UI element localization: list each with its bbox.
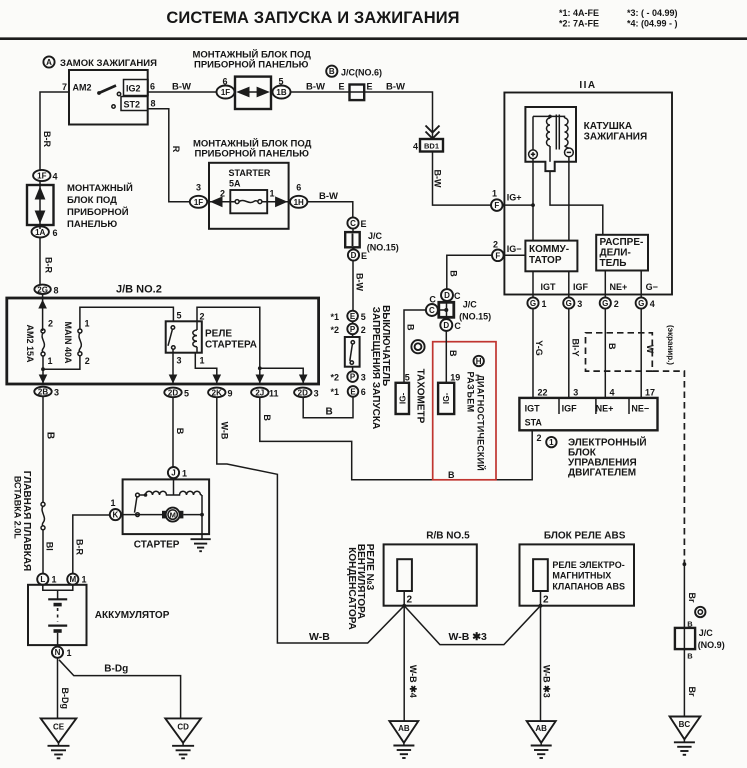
svg-text:ТЕЛЬ: ТЕЛЬ bbox=[600, 258, 627, 269]
svg-text:2: 2 bbox=[48, 319, 53, 329]
svg-text:3: 3 bbox=[573, 388, 578, 398]
fan relay element bbox=[397, 559, 412, 591]
connector J(1) circle bbox=[168, 467, 179, 478]
svg-text:CD: CD bbox=[177, 723, 189, 732]
exit arrow down bbox=[39, 375, 48, 384]
svg-text:F: F bbox=[494, 201, 499, 210]
connector F(1) circle bbox=[491, 199, 503, 211]
svg-text:W-B: W-B bbox=[309, 631, 330, 643]
wire IG2 to 1F oval bbox=[148, 91, 217, 93]
wire N to CE ground bbox=[57, 658, 59, 719]
svg-text:6: 6 bbox=[361, 387, 366, 397]
wire relay pin2 to 2J(11) bbox=[197, 307, 260, 384]
wire through fuse box bbox=[209, 201, 235, 203]
starter solenoid coil bbox=[139, 494, 145, 496]
svg-text:1: 1 bbox=[110, 498, 115, 508]
junction block J/B NO.2 box bbox=[7, 298, 319, 384]
svg-text:СТАРТЕРА: СТАРТЕРА bbox=[205, 340, 257, 351]
svg-text:B: B bbox=[448, 350, 458, 357]
relay contact bbox=[171, 326, 175, 330]
ground (starter) bbox=[191, 538, 211, 540]
svg-text:D: D bbox=[443, 321, 449, 330]
connector N(1) circle bbox=[52, 647, 63, 658]
wire K to motor bbox=[121, 514, 164, 516]
svg-text:B: B bbox=[262, 414, 272, 421]
wire coil tab to distributor bbox=[550, 171, 603, 235]
svg-text:6: 6 bbox=[150, 82, 155, 92]
svg-text:ТАХОМЕТР: ТАХОМЕТР bbox=[415, 369, 426, 424]
ABS relay element bbox=[533, 559, 548, 591]
ground CE bbox=[41, 718, 77, 742]
svg-text:H: H bbox=[476, 357, 482, 366]
svg-text:G−: G− bbox=[646, 282, 658, 292]
junction connector J/C NO.9 box bbox=[675, 628, 695, 649]
connector C circle left bbox=[426, 304, 438, 316]
designator double circle (tach) bbox=[411, 340, 424, 353]
svg-text:1: 1 bbox=[542, 299, 547, 309]
connector 1B oval bbox=[273, 86, 291, 99]
svg-text:IG-: IG- bbox=[442, 393, 451, 404]
svg-text:G: G bbox=[602, 299, 608, 308]
wire to battery L bbox=[42, 530, 44, 574]
svg-text:6: 6 bbox=[296, 183, 301, 193]
svg-text:РЕЛЕ: РЕЛЕ bbox=[205, 329, 232, 340]
svg-text:D: D bbox=[444, 291, 450, 300]
connector G(1) bbox=[527, 297, 538, 308]
svg-text:B: B bbox=[45, 432, 56, 439]
svg-text:B-W: B-W bbox=[319, 191, 338, 202]
wire 1A to 2G bbox=[39, 238, 41, 285]
ignition switch contact bbox=[97, 91, 101, 95]
wire MAIN top to relay pin 5 bbox=[80, 307, 173, 329]
svg-text:МОНТАЖНЫЙ: МОНТАЖНЫЙ bbox=[67, 182, 133, 194]
wire W-B *3 R/B to ABS bbox=[404, 606, 540, 645]
node ABS pin2 junction bbox=[539, 604, 543, 608]
pass-through arrow left bbox=[236, 87, 249, 98]
svg-text:STARTER: STARTER bbox=[229, 168, 271, 178]
neutral start switch box bbox=[345, 337, 360, 367]
wire 1B to J/C NO.6 bbox=[291, 91, 350, 93]
connector 1F(3) oval bbox=[190, 196, 207, 208]
svg-text:7: 7 bbox=[62, 82, 67, 92]
igniter КОММУТАТОР box bbox=[525, 241, 577, 272]
fuse AM2 15A bbox=[41, 329, 45, 333]
wire coil plus column down to igniter bbox=[532, 158, 534, 240]
svg-text:CE: CE bbox=[53, 723, 65, 732]
wire AM2 to 2B with junction bbox=[42, 356, 44, 384]
svg-text:L: L bbox=[40, 575, 45, 584]
svg-text:ПАНЕЛЬЮ: ПАНЕЛЬЮ bbox=[67, 219, 117, 230]
svg-text:C: C bbox=[429, 295, 436, 305]
svg-text:БЛОК ПОД: БЛОК ПОД bbox=[67, 195, 117, 206]
svg-text:2: 2 bbox=[220, 189, 225, 199]
svg-text:NE+: NE+ bbox=[610, 282, 628, 292]
ignition switch SW1 box bbox=[69, 70, 148, 125]
svg-text:БЛОК РЕЛЕ ABS: БЛОК РЕЛЕ ABS bbox=[544, 531, 626, 542]
starter box bbox=[123, 479, 210, 534]
wire F2 left to J/C NO.15 bbox=[447, 255, 492, 289]
switch stub wires bbox=[352, 321, 354, 323]
fuse block STARTER 5A outer box bbox=[209, 163, 289, 229]
svg-text:ЗАЖИГАНИЯ: ЗАЖИГАНИЯ bbox=[584, 132, 648, 143]
wire R/B pin2 to AB ground bbox=[403, 606, 405, 721]
svg-text:2: 2 bbox=[543, 595, 549, 606]
svg-text:8: 8 bbox=[54, 285, 59, 295]
wire 2G into box bbox=[42, 294, 44, 331]
connector 2B oval bbox=[34, 387, 51, 397]
wire relay pin1 to 2K(9) bbox=[195, 353, 217, 384]
svg-text:C: C bbox=[454, 291, 461, 301]
svg-text:3: 3 bbox=[54, 388, 59, 398]
svg-text:G: G bbox=[566, 299, 572, 308]
wire G3 to ECU 3 bbox=[568, 309, 570, 398]
relay coil bbox=[196, 321, 198, 330]
designator circle 1 bbox=[546, 437, 556, 447]
connector M(1) circle bbox=[67, 574, 78, 585]
ground AB (left) bbox=[389, 721, 418, 743]
svg-text:B-W: B-W bbox=[386, 82, 405, 93]
wire coil minus down to igniter bbox=[568, 156, 570, 240]
svg-text:A: A bbox=[46, 58, 52, 67]
svg-text:8: 8 bbox=[151, 99, 156, 109]
svg-text:2D: 2D bbox=[298, 388, 308, 397]
svg-text:B-W: B-W bbox=[172, 82, 191, 93]
node shield junction dot bbox=[683, 562, 687, 566]
svg-text:IGF: IGF bbox=[562, 404, 578, 414]
connector 2J(11) oval bbox=[251, 388, 268, 398]
svg-text:G: G bbox=[530, 299, 536, 308]
svg-text:B-W: B-W bbox=[306, 82, 325, 93]
designator double circle J/C NO.9 bbox=[695, 607, 705, 617]
svg-text:КЛАПАНОВ ABS: КЛАПАНОВ ABS bbox=[552, 581, 625, 591]
wire C left to tachometer bbox=[404, 310, 426, 383]
svg-text:2: 2 bbox=[537, 433, 542, 443]
svg-text:СИСТЕМА ЗАПУСКА И ЗАЖИГАНИЯ: СИСТЕМА ЗАПУСКА И ЗАЖИГАНИЯ bbox=[166, 9, 459, 27]
wire AM2 pin7 to 1F(4) bbox=[40, 92, 69, 170]
svg-text:STA: STA bbox=[525, 418, 543, 428]
wire D to diag IG- bbox=[445, 331, 447, 383]
svg-text:Bl: Bl bbox=[45, 542, 55, 551]
svg-text:ПРИБОРНОЙ ПАНЕЛЬЮ: ПРИБОРНОЙ ПАНЕЛЬЮ bbox=[195, 148, 310, 160]
svg-text:1: 1 bbox=[82, 575, 87, 585]
svg-text:5: 5 bbox=[177, 311, 182, 321]
svg-text:F: F bbox=[495, 251, 500, 260]
transformer windings bbox=[532, 116, 534, 150]
starter motor M bbox=[162, 511, 166, 519]
svg-text:C: C bbox=[429, 306, 435, 315]
svg-text:B: B bbox=[406, 324, 416, 331]
svg-text:IGT: IGT bbox=[525, 404, 541, 414]
svg-text:AB: AB bbox=[398, 724, 410, 733]
wire branch to 2D(3) bbox=[260, 368, 303, 384]
svg-text:ЗАМОК ЗАЖИГАНИЯ: ЗАМОК ЗАЖИГАНИЯ bbox=[60, 58, 157, 69]
wire M to K (B-R) bbox=[73, 515, 110, 574]
tachometer IG- box bbox=[396, 383, 409, 414]
svg-text:(NO.15): (NO.15) bbox=[367, 243, 399, 253]
wire ECU STA pin2 to 2J bbox=[260, 397, 532, 480]
svg-text:АККУМУЛЯТОР: АККУМУЛЯТОР bbox=[95, 610, 170, 621]
relay block ABS box bbox=[520, 544, 635, 605]
svg-text:P: P bbox=[350, 325, 356, 334]
ground BC bbox=[670, 717, 701, 740]
wire F1 into box bbox=[503, 204, 533, 206]
ECU box bbox=[519, 398, 657, 430]
junction connector J/C NO.6 box bbox=[350, 85, 365, 101]
svg-text:3: 3 bbox=[314, 389, 319, 399]
svg-text:3: 3 bbox=[196, 183, 201, 193]
connector L(1) circle bbox=[37, 574, 48, 585]
svg-text:J/C: J/C bbox=[699, 628, 714, 638]
svg-text:КОНДЕНСАТОРА: КОНДЕНСАТОРА bbox=[346, 547, 357, 629]
svg-text:3: 3 bbox=[577, 299, 582, 309]
svg-text:R/B NO.5: R/B NO.5 bbox=[426, 531, 470, 542]
svg-text:9: 9 bbox=[228, 389, 233, 399]
pass-through arrow right bbox=[257, 87, 270, 98]
svg-text:1: 1 bbox=[200, 356, 205, 366]
node B designator bbox=[326, 66, 337, 77]
svg-text:*2: *2 bbox=[331, 325, 340, 335]
svg-text:B-R: B-R bbox=[74, 539, 84, 555]
pass-through arrow down bbox=[35, 211, 46, 224]
svg-text:ПРИБОРНОЙ ПАНЕЛЬЮ: ПРИБОРНОЙ ПАНЕЛЬЮ bbox=[194, 59, 309, 71]
distributor pins down bbox=[604, 271, 606, 298]
svg-text:N: N bbox=[55, 648, 61, 657]
svg-text:J/C(NO.6): J/C(NO.6) bbox=[341, 68, 382, 78]
battery box bbox=[28, 585, 87, 645]
svg-text:B-Dg: B-Dg bbox=[60, 688, 70, 710]
svg-text:E: E bbox=[361, 219, 367, 229]
connector 2K(9) oval bbox=[208, 388, 225, 398]
svg-text:Y-G: Y-G bbox=[534, 340, 544, 356]
svg-text:1: 1 bbox=[182, 469, 187, 479]
coil plus terminal bbox=[529, 150, 538, 159]
svg-text:J: J bbox=[171, 469, 175, 478]
bottom D(C) circle bbox=[440, 319, 452, 331]
svg-text:РЕЛЕ ЭЛЕКТРО-: РЕЛЕ ЭЛЕКТРО- bbox=[552, 560, 624, 570]
connector G(4) bbox=[636, 297, 647, 308]
svg-text:Bl-Y: Bl-Y bbox=[571, 339, 581, 357]
svg-text:17: 17 bbox=[645, 388, 655, 398]
svg-text:ДВИГАТЕЛЕМ: ДВИГАТЕЛЕМ bbox=[568, 468, 636, 479]
connector 2D(5) oval bbox=[164, 388, 181, 398]
svg-text:*1: *1 bbox=[331, 312, 340, 322]
svg-text:РАЗЪЕМ: РАЗЪЕМ bbox=[466, 371, 476, 412]
svg-text:5A: 5A bbox=[229, 179, 241, 189]
svg-text:5: 5 bbox=[361, 312, 366, 322]
svg-text:B-R: B-R bbox=[42, 131, 52, 147]
svg-text:3: 3 bbox=[177, 356, 182, 366]
svg-text:1F: 1F bbox=[221, 88, 230, 97]
svg-text:W-B ✱3: W-B ✱3 bbox=[449, 631, 487, 643]
svg-text:ДЕЛИ-: ДЕЛИ- bbox=[600, 248, 631, 259]
battery internals bbox=[43, 585, 73, 591]
connector 1F(4) oval bbox=[33, 170, 50, 181]
connector G(2) bbox=[600, 297, 611, 308]
svg-text:(NO.15): (NO.15) bbox=[459, 312, 491, 322]
svg-text:22: 22 bbox=[538, 388, 548, 398]
wire G1 to ECU 22 bbox=[532, 309, 534, 398]
svg-text:ST2: ST2 bbox=[124, 100, 141, 110]
svg-text:B: B bbox=[607, 343, 617, 350]
pass-through arrow up bbox=[35, 186, 46, 199]
svg-text:2: 2 bbox=[200, 312, 205, 322]
svg-text:1H: 1H bbox=[294, 198, 304, 207]
svg-text:W-B ✱3: W-B ✱3 bbox=[542, 665, 552, 698]
svg-text:ВСТАВКА 2.0L: ВСТАВКА 2.0L bbox=[13, 476, 23, 539]
svg-text:B-W: B-W bbox=[355, 273, 365, 291]
svg-text:J/B NO.2: J/B NO.2 bbox=[116, 284, 162, 296]
svg-text:1: 1 bbox=[48, 356, 53, 366]
svg-text:IGF: IGF bbox=[573, 282, 589, 292]
svg-text:11: 11 bbox=[269, 389, 279, 399]
svg-text:4: 4 bbox=[413, 142, 418, 152]
header rule bbox=[0, 37, 747, 40]
connector 2D(3) oval bbox=[294, 388, 311, 398]
svg-text:Br: Br bbox=[687, 592, 697, 602]
junction block pass-through box bbox=[235, 77, 271, 109]
svg-text:*1: 4A-FE: *1: 4A-FE bbox=[559, 8, 599, 18]
wire G2 to ECU 4 bbox=[604, 309, 606, 398]
svg-text:19: 19 bbox=[450, 372, 460, 382]
svg-text:1: 1 bbox=[67, 648, 72, 658]
entry arrow up bbox=[38, 300, 47, 309]
svg-text:1B: 1B bbox=[276, 88, 286, 97]
svg-text:2: 2 bbox=[614, 299, 619, 309]
wire J/C NO.6 to BD1 bbox=[364, 92, 432, 139]
svg-text:6: 6 bbox=[53, 228, 58, 238]
connector G(3) bbox=[563, 297, 574, 308]
svg-text:3: 3 bbox=[361, 373, 366, 383]
svg-text:W: W bbox=[645, 345, 655, 354]
fuse STARTER 5A element bbox=[235, 200, 239, 204]
wire E6 to 2D(3) bbox=[303, 397, 353, 418]
svg-text:*1: *1 bbox=[331, 387, 340, 397]
svg-text:B-R: B-R bbox=[44, 257, 54, 273]
svg-text:2: 2 bbox=[361, 325, 366, 335]
svg-text:*3: ( - 04.99): *3: ( - 04.99) bbox=[627, 8, 678, 18]
svg-text:МАГНИТНЫХ: МАГНИТНЫХ bbox=[552, 571, 611, 581]
svg-text:K: K bbox=[113, 511, 119, 520]
wire J/C NO.9 to BC ground bbox=[683, 649, 685, 716]
svg-text:NE+: NE+ bbox=[596, 404, 614, 414]
svg-text:B: B bbox=[326, 407, 333, 418]
svg-text:1: 1 bbox=[492, 189, 497, 199]
distributor РАСПРЕДЕЛИТЕЛЬ box bbox=[596, 235, 648, 271]
junction block pass-through box (left column) bbox=[27, 185, 54, 225]
svg-text:W-B ✱4: W-B ✱4 bbox=[408, 665, 418, 698]
wire motor to ground bbox=[183, 514, 202, 516]
svg-text:C: C bbox=[454, 321, 461, 331]
svg-text:ЗАПРЕЩЕНИЯ ЗАПУСКА: ЗАПРЕЩЕНИЯ ЗАПУСКА bbox=[370, 307, 381, 429]
svg-text:M: M bbox=[170, 511, 176, 520]
igniter pins down bbox=[532, 271, 534, 297]
connector F(2) circle bbox=[492, 250, 504, 262]
node R/B pin2 junction bbox=[402, 604, 406, 608]
connector 1F oval bbox=[217, 86, 235, 99]
component box IIA bbox=[504, 93, 672, 295]
svg-text:IG+: IG+ bbox=[507, 193, 522, 203]
ignition coil box bbox=[525, 107, 576, 171]
svg-text:2B: 2B bbox=[38, 388, 48, 397]
svg-text:КАТУШКА: КАТУШКА bbox=[584, 121, 633, 132]
svg-text:*2: 7A-FE: *2: 7A-FE bbox=[559, 19, 599, 29]
connector K(1) circle bbox=[110, 509, 121, 520]
svg-text:2K: 2K bbox=[212, 388, 222, 397]
svg-text:(экранир.): (экранир.) bbox=[666, 325, 675, 365]
connector 1H oval bbox=[290, 196, 307, 208]
svg-text:4: 4 bbox=[650, 299, 655, 309]
svg-text:1F: 1F bbox=[194, 198, 203, 207]
svg-text:1F: 1F bbox=[37, 172, 46, 181]
ground CD bbox=[165, 718, 201, 742]
starter contact bbox=[136, 493, 140, 497]
svg-text:1: 1 bbox=[85, 319, 90, 329]
node A designator bbox=[43, 56, 54, 67]
connector C(E) circle bbox=[347, 217, 358, 228]
wire F2 to igniter bbox=[504, 254, 526, 256]
svg-text:2: 2 bbox=[85, 356, 90, 366]
wire J into box bbox=[173, 478, 175, 495]
svg-text:AM2: AM2 bbox=[73, 83, 92, 93]
svg-text:2G: 2G bbox=[37, 285, 48, 294]
svg-text:РАСПРЕ-: РАСПРЕ- bbox=[600, 237, 644, 248]
svg-text:AB: AB bbox=[535, 724, 547, 733]
svg-text:E: E bbox=[350, 312, 356, 321]
svg-text:B: B bbox=[329, 67, 335, 76]
svg-text:D: D bbox=[351, 251, 357, 260]
svg-text:КОММУ-: КОММУ- bbox=[529, 244, 569, 255]
wire 1H to J/C NO.15 bbox=[307, 202, 352, 218]
wire ABS pin2 to AB ground bbox=[540, 606, 542, 721]
wire 2K(9) W-B to R/B NO.5 bbox=[217, 397, 404, 643]
svg-text:Br: Br bbox=[687, 686, 697, 696]
ST2 terminal cell bbox=[121, 97, 148, 111]
svg-text:G: G bbox=[638, 299, 644, 308]
switch lever bbox=[351, 341, 354, 344]
coil minus terminal bbox=[565, 148, 574, 157]
main fusible link 2.0L bbox=[41, 502, 45, 506]
svg-text:E: E bbox=[350, 387, 356, 396]
wire ST2 to 1F(3) bbox=[148, 109, 190, 202]
diagnostic red box bbox=[433, 342, 496, 480]
svg-text:B: B bbox=[175, 428, 185, 435]
noise filter chevrons bbox=[426, 126, 440, 133]
svg-text:M: M bbox=[69, 575, 76, 584]
shield dashed box bbox=[586, 333, 653, 371]
svg-text:ТАТОР: ТАТОР bbox=[529, 255, 562, 266]
starter relay box bbox=[166, 321, 202, 352]
svg-text:NE−: NE− bbox=[631, 404, 649, 414]
svg-text:2J: 2J bbox=[255, 388, 264, 397]
BD1 block bbox=[420, 139, 443, 152]
svg-text:4: 4 bbox=[610, 388, 615, 398]
svg-text:*2: *2 bbox=[331, 373, 340, 383]
svg-text:IG-: IG- bbox=[398, 393, 407, 404]
wire branch to MAIN fuse bbox=[43, 356, 80, 370]
node H designator bbox=[474, 356, 484, 366]
svg-text:2: 2 bbox=[407, 595, 413, 606]
wire C to D to switch bbox=[352, 229, 354, 233]
svg-text:W-B: W-B bbox=[220, 422, 230, 440]
svg-text:MAIN 40A: MAIN 40A bbox=[63, 321, 73, 364]
svg-text:5: 5 bbox=[405, 373, 410, 383]
svg-text:4: 4 bbox=[53, 172, 58, 182]
svg-text:B: B bbox=[687, 652, 693, 661]
svg-text:IGT: IGT bbox=[541, 282, 557, 292]
svg-text:ПРИБОРНОЙ: ПРИБОРНОЙ bbox=[67, 206, 129, 218]
svg-text:BC: BC bbox=[679, 720, 691, 729]
svg-text:AM2 15A: AM2 15A bbox=[25, 324, 35, 363]
